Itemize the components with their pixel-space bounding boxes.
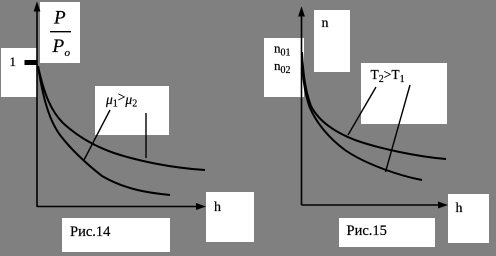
svg-text:1: 1 [10, 54, 17, 69]
svg-text:Рис.14: Рис.14 [70, 224, 111, 240]
svg-text:o: o [65, 47, 71, 59]
svg-text:P: P [52, 36, 65, 57]
svg-text:n: n [322, 16, 329, 31]
svg-text:h: h [456, 201, 463, 216]
svg-text:h: h [214, 200, 221, 215]
svg-text:Рис.15: Рис.15 [347, 223, 387, 239]
svg-text:P: P [53, 8, 66, 29]
